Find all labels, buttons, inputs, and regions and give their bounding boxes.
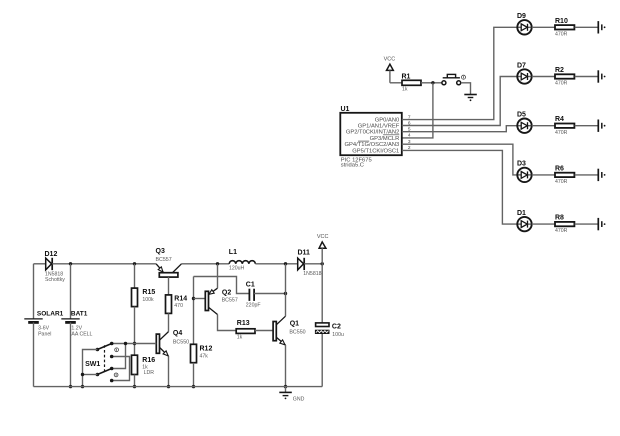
- wire Q1 collector to rail: [285, 264, 287, 316]
- svg-text:VCC: VCC: [384, 57, 396, 63]
- inductor L1 120uH: [229, 249, 256, 271]
- wire pin 5 to LED D5: [402, 126, 518, 132]
- wire R12 to bottom rail: [193, 363, 195, 387]
- wire SW1 upper contacts link: [114, 344, 126, 369]
- node BAT1 top junction: [69, 262, 72, 265]
- node BAT1 bottom junction: [69, 385, 72, 388]
- resistor R12 47k: [191, 344, 213, 362]
- svg-text:470R: 470R: [555, 81, 568, 87]
- svg-text:GP3/MCLR: GP3/MCLR: [370, 136, 400, 142]
- wire pin 6 to LED D7: [402, 77, 518, 126]
- svg-text:SOLAR1: SOLAR1: [37, 310, 64, 317]
- node R15/R16/Q4 base junction: [133, 342, 136, 345]
- svg-text:D1: D1: [517, 210, 526, 217]
- svg-text:1N5818: 1N5818: [303, 271, 321, 277]
- wire Q2 emitter to rail: [217, 264, 219, 288]
- svg-text:D3: D3: [517, 161, 526, 168]
- node R12 bottom junction: [192, 385, 195, 388]
- svg-text:220pF: 220pF: [246, 303, 261, 309]
- svg-text:D11: D11: [298, 249, 311, 256]
- svg-text:470: 470: [174, 303, 183, 309]
- svg-text:GP4/T1G/OSC2/AN3: GP4/T1G/OSC2/AN3: [345, 142, 400, 148]
- wire R16 to bottom rail: [134, 375, 136, 387]
- wire Q2 base column: [193, 277, 195, 345]
- svg-text:470R: 470R: [555, 130, 568, 136]
- wire Q2 collector to R13: [218, 315, 237, 331]
- ground (row D9): [598, 21, 605, 33]
- svg-text:R8: R8: [555, 215, 564, 222]
- resistor R14 470: [166, 295, 188, 314]
- svg-text:100u: 100u: [332, 332, 344, 338]
- resistor R10 470R: [555, 18, 574, 38]
- ground (row D7): [598, 70, 605, 82]
- svg-text:R6: R6: [555, 165, 564, 172]
- IC U1 PIC 12F675: [340, 106, 402, 168]
- wire BAT1 to bottom rail: [70, 322, 72, 386]
- pin label GP2/T0CKI/INT/AN2 pin 5: [346, 127, 411, 136]
- wire top rail D12 to Q3: [52, 263, 156, 265]
- wire D1 to R8: [532, 223, 555, 225]
- LED D3: [517, 161, 532, 182]
- wire L1 to D11: [255, 263, 297, 265]
- resistor R4 470R: [555, 116, 574, 136]
- wire SW1 pole1 common to ground: [83, 350, 98, 387]
- svg-text:D5: D5: [517, 112, 526, 119]
- wire C1 to Q1 collector node: [254, 293, 285, 295]
- wire D5 to R4: [532, 125, 555, 127]
- wire bottom rail: [34, 386, 323, 388]
- wire Q4 emitter to bottom rail: [168, 356, 170, 386]
- svg-text:C2: C2: [332, 324, 341, 331]
- resistor R2 470R: [555, 67, 574, 87]
- wire R1 to button: [421, 82, 442, 84]
- node SW1 ground junction: [81, 385, 84, 388]
- svg-text:BAT1: BAT1: [71, 310, 88, 317]
- svg-text:R14: R14: [174, 296, 187, 303]
- svg-text:470R: 470R: [555, 31, 568, 37]
- svg-text:R2: R2: [555, 67, 564, 74]
- wire R8 to ground: [575, 223, 599, 225]
- push button S1: [442, 74, 466, 84]
- svg-text:Q4: Q4: [173, 330, 182, 337]
- svg-text:1k: 1k: [237, 335, 243, 341]
- wire junction to pin 4 MCLR: [402, 83, 433, 138]
- svg-text:D9: D9: [517, 13, 526, 20]
- capacitor C1 220pF: [246, 282, 261, 309]
- LED D1: [517, 210, 532, 231]
- wire Q4 base: [112, 343, 157, 345]
- svg-text:Schottky: Schottky: [45, 277, 65, 283]
- svg-text:470R: 470R: [555, 228, 568, 234]
- svg-text:4: 4: [408, 133, 411, 139]
- wire top rail Q3 to L1: [182, 263, 230, 265]
- svg-text:1k: 1k: [402, 86, 408, 92]
- svg-text:R1: R1: [402, 74, 411, 81]
- wire D3 to R6: [532, 174, 555, 176]
- ground (row D3): [598, 169, 605, 181]
- svg-text:R4: R4: [555, 116, 564, 123]
- svg-text:R16: R16: [142, 357, 155, 364]
- ground (row D5): [598, 120, 605, 132]
- node R16 bottom junction: [133, 385, 136, 388]
- wire R6 to ground: [575, 174, 599, 176]
- transistor Q4 BC550: [156, 330, 189, 356]
- resistor R16 1k LDR: [132, 355, 156, 376]
- transistor Q3 BC557: [156, 248, 182, 277]
- svg-text:GND: GND: [293, 397, 305, 403]
- wire BAT1 column top: [70, 264, 72, 319]
- capacitor C2 100u: [315, 323, 344, 338]
- svg-text:AA CELL: AA CELL: [71, 331, 92, 337]
- wire Q1 emitter to bottom rail: [285, 345, 287, 387]
- svg-text:D12: D12: [45, 251, 58, 258]
- svg-text:Panel: Panel: [38, 331, 51, 337]
- svg-text:BC550: BC550: [173, 339, 189, 345]
- node Q1 collector junction: [284, 262, 287, 265]
- ground GND: [279, 387, 304, 403]
- battery SOLAR1 3-6V Panel: [24, 310, 63, 337]
- wire pin 3 to LED D3: [402, 144, 518, 175]
- resistor R13 1k: [236, 320, 255, 341]
- svg-text:R10: R10: [555, 18, 568, 25]
- svg-text:47k: 47k: [200, 353, 209, 359]
- wire R2 to ground: [575, 76, 599, 78]
- wire R4 to ground: [575, 125, 599, 127]
- svg-text:470R: 470R: [555, 179, 568, 185]
- svg-text:BC550: BC550: [289, 329, 305, 335]
- power symbol VCC (lower): [317, 234, 329, 264]
- node Q2 emitter junction: [216, 262, 219, 265]
- wire SW1 lower contacts link: [114, 357, 130, 381]
- wire pin 2 to LED D1: [402, 150, 518, 224]
- wire Q2 base: [194, 298, 206, 300]
- svg-text:LDR: LDR: [144, 370, 155, 376]
- wire Q2 base node jog to C1: [194, 277, 250, 294]
- node SW1 upper link junction: [124, 342, 127, 345]
- wire pin 7 to LED D9: [402, 27, 518, 119]
- diode D11 1N5818: [298, 249, 322, 277]
- svg-text:100k: 100k: [142, 297, 154, 303]
- node R15 top junction: [133, 262, 136, 265]
- svg-text:R13: R13: [237, 320, 250, 327]
- wire D9 to R10: [532, 26, 555, 28]
- svg-text:GP1/AN1/VREF: GP1/AN1/VREF: [358, 123, 400, 129]
- svg-text:BC557: BC557: [156, 257, 172, 263]
- wire VCC node to C2: [321, 264, 323, 323]
- resistor R8 470R: [555, 215, 574, 235]
- node C1 right junction: [284, 292, 287, 295]
- wire D11 to VCC node: [304, 263, 322, 265]
- wire VCC to R1: [390, 82, 402, 84]
- LED D5: [517, 112, 532, 133]
- pin label GP5/T1CKI/OSC1 pin 2: [352, 145, 411, 154]
- svg-text:BC557: BC557: [222, 297, 238, 303]
- LED D7: [517, 62, 532, 83]
- battery BAT1 1.2V AA CELL: [61, 310, 92, 337]
- wire button to ground: [461, 83, 471, 95]
- transistor Q1 BC550: [273, 316, 306, 345]
- node Q1 emitter junction: [284, 385, 287, 388]
- ground (button): [464, 95, 477, 102]
- svg-text:Q3: Q3: [156, 248, 165, 255]
- svg-text:D7: D7: [517, 62, 526, 69]
- wire C2 to bottom rail: [321, 334, 323, 387]
- resistor R6 470R: [555, 165, 574, 185]
- node Q2 base junction: [192, 297, 195, 300]
- pin label GP4/T1G/OSC2/AN3 pin 3: [345, 139, 411, 148]
- ground (row D1): [598, 218, 605, 230]
- svg-text:R12: R12: [200, 345, 213, 352]
- power symbol VCC (top): [384, 57, 396, 83]
- wire R13 to Q1 base: [255, 330, 273, 332]
- wire SW1 pole2 common: [83, 374, 98, 376]
- wire R10 to ground: [575, 26, 599, 28]
- wire R15 to R16: [134, 307, 136, 356]
- node Q4 emitter junction: [167, 385, 170, 388]
- diode D12 1N5818 Schottky: [45, 251, 66, 283]
- svg-text:VCC: VCC: [317, 234, 329, 240]
- wire SOLAR1 to bottom rail: [33, 322, 35, 386]
- svg-text:Q1: Q1: [290, 321, 299, 328]
- wire top rail left to D12: [34, 263, 46, 265]
- svg-text:GP5/T1CKI/OSC1: GP5/T1CKI/OSC1: [352, 148, 399, 154]
- resistor R15 100k: [132, 264, 156, 307]
- wire Q3 base to R14: [168, 277, 170, 295]
- wire left rail to SOLAR1: [33, 264, 35, 319]
- node R1/button/MCLR junction: [431, 81, 434, 84]
- node SW1 common link junction: [81, 373, 84, 376]
- pin label GP0/AN0 pin 7: [375, 114, 411, 123]
- svg-text:120uH: 120uH: [229, 265, 245, 271]
- svg-text:SW1: SW1: [85, 361, 100, 368]
- svg-text:strida5.C: strida5.C: [341, 162, 364, 168]
- svg-text:Q2: Q2: [222, 289, 231, 296]
- pin label GP1/AN1/VREF pin 6: [358, 120, 411, 129]
- pin label GP3/MCLR pin 4: [370, 133, 411, 142]
- node VCC junction: [321, 262, 324, 265]
- switch SW1: [85, 342, 118, 383]
- transistor Q2 BC557: [205, 288, 238, 314]
- LED D9: [517, 13, 532, 34]
- svg-text:R15: R15: [142, 289, 155, 296]
- resistor R1 1k: [402, 74, 422, 93]
- svg-text:L1: L1: [229, 249, 237, 256]
- wire R14 to Q4 collector: [168, 313, 170, 331]
- wire D7 to R2: [532, 76, 555, 78]
- svg-text:C1: C1: [246, 282, 255, 289]
